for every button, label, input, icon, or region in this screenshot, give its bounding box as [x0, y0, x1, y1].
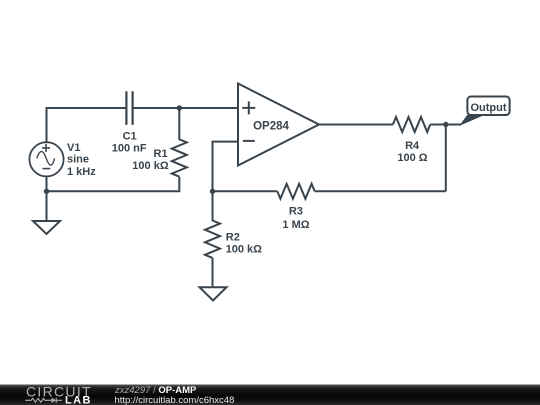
resistor R2 — [205, 191, 220, 258]
wire bottom rail V1 to R1 bottom — [47, 177, 180, 192]
svg-text:R1: R1 — [154, 148, 168, 160]
wire feedback rail left segment — [213, 190, 278, 192]
node B: V1/ground junction — [44, 189, 49, 194]
logo waveform: resistor zigzag + diode — [25, 398, 62, 403]
svg-text:100 nF: 100 nF — [112, 143, 147, 155]
wire op-amp output to R4 — [319, 124, 393, 126]
svg-text:OP284: OP284 — [253, 121, 289, 133]
svg-text:sine: sine — [67, 154, 89, 166]
svg-text:1 MΩ: 1 MΩ — [282, 219, 309, 231]
op-amp U1 OP284 — [238, 84, 319, 166]
wire output node down — [445, 125, 447, 192]
svg-text:R3: R3 — [289, 205, 303, 217]
output flag box — [467, 97, 509, 116]
resistor R3 — [277, 184, 314, 199]
svg-text:100 kΩ: 100 kΩ — [132, 160, 169, 172]
svg-text:http://circuitlab.com/c6hxc48: http://circuitlab.com/c6hxc48 — [115, 395, 235, 405]
svg-text:Output: Output — [470, 102, 506, 114]
svg-text:R2: R2 — [226, 231, 240, 243]
output flag tail — [459, 115, 485, 126]
svg-text:R4: R4 — [405, 140, 420, 152]
wire top rail left: V1 top to C1 — [47, 108, 127, 142]
svg-text:LAB: LAB — [65, 395, 92, 405]
svg-text:100 kΩ: 100 kΩ — [226, 244, 263, 256]
footer bar — [0, 385, 540, 405]
wire C1 to op-amp + input — [133, 107, 238, 109]
wire R2 to ground — [212, 258, 214, 287]
svg-text:V1: V1 — [67, 142, 80, 154]
resistor R1 — [172, 108, 187, 177]
ground (R2) — [200, 287, 227, 300]
svg-text:C1: C1 — [123, 131, 137, 143]
svg-text:100 Ω: 100 Ω — [397, 152, 427, 164]
wire V1 bottom lead — [46, 176, 48, 191]
voltage source V1 — [29, 142, 63, 176]
resistor R4 — [393, 117, 430, 132]
node C: -input/R2/R3 junction — [210, 189, 215, 194]
node D: output junction — [443, 122, 448, 127]
ground (V1) — [46, 191, 48, 221]
wire R4 to output node — [430, 124, 461, 126]
capacitor C1 — [126, 91, 132, 125]
node A: C1/R1/+input junction — [177, 105, 182, 110]
wire op-amp - input to feedback node — [213, 142, 239, 192]
svg-text:1 kHz: 1 kHz — [67, 166, 96, 178]
wire R3 to output node — [315, 190, 446, 192]
